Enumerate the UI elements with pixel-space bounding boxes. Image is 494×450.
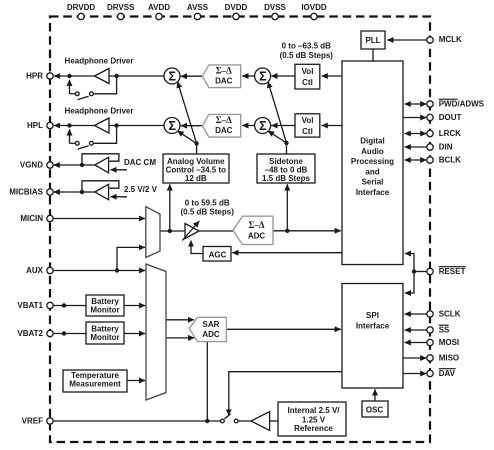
svg-text:MICIN: MICIN xyxy=(20,214,43,223)
svg-text:2.5 V/2 V: 2.5 V/2 V xyxy=(124,185,158,194)
svg-text:HPR: HPR xyxy=(26,72,43,81)
svg-text:VBAT1: VBAT1 xyxy=(17,301,43,310)
svg-text:MCLK: MCLK xyxy=(439,35,462,44)
svg-text:Internal 2.5 V/: Internal 2.5 V/ xyxy=(287,406,340,415)
svg-text:Σ: Σ xyxy=(259,69,267,83)
svg-text:Headphone Driver: Headphone Driver xyxy=(65,107,134,116)
svg-text:Σ: Σ xyxy=(169,119,177,133)
svg-text:AVDD: AVDD xyxy=(148,3,170,12)
svg-text:PWD/ADWS: PWD/ADWS xyxy=(439,100,485,109)
svg-text:Σ–Δ: Σ–Δ xyxy=(248,220,264,230)
svg-text:Interface: Interface xyxy=(356,322,390,331)
svg-text:VBAT2: VBAT2 xyxy=(17,329,43,338)
svg-text:Digital: Digital xyxy=(360,137,384,146)
svg-text:Audio: Audio xyxy=(361,147,384,156)
svg-text:Headphone Driver: Headphone Driver xyxy=(65,57,134,66)
svg-text:ADC: ADC xyxy=(202,330,220,339)
svg-text:SCLK: SCLK xyxy=(439,310,461,319)
svg-text:DVSS: DVSS xyxy=(264,3,286,12)
svg-text:AGC: AGC xyxy=(209,250,227,259)
svg-text:DRVDD: DRVDD xyxy=(67,3,96,12)
svg-text:1.5 dB Steps: 1.5 dB Steps xyxy=(262,174,311,183)
svg-text:Serial: Serial xyxy=(362,178,384,187)
svg-text:Measurement: Measurement xyxy=(69,380,121,389)
svg-text:(0.5 dB Steps): (0.5 dB Steps) xyxy=(280,51,334,60)
svg-text:DAC: DAC xyxy=(215,126,233,135)
svg-text:Ctl: Ctl xyxy=(302,78,313,87)
svg-text:Interface: Interface xyxy=(356,188,390,197)
svg-text:Monitor: Monitor xyxy=(90,333,119,342)
svg-text:OSC: OSC xyxy=(366,405,384,414)
svg-text:SPI: SPI xyxy=(366,311,379,320)
svg-text:VGND: VGND xyxy=(20,161,43,170)
svg-text:DVDD: DVDD xyxy=(225,3,248,12)
svg-text:IOVDD: IOVDD xyxy=(301,3,327,12)
svg-text:SS: SS xyxy=(439,326,450,335)
svg-text:Σ–Δ: Σ–Δ xyxy=(216,115,232,125)
svg-text:Vol: Vol xyxy=(302,67,314,76)
svg-text:AUX: AUX xyxy=(26,266,44,275)
svg-text:Vol: Vol xyxy=(302,116,314,125)
svg-text:DRVSS: DRVSS xyxy=(107,3,135,12)
svg-text:and: and xyxy=(365,167,379,176)
svg-text:DAC: DAC xyxy=(215,77,233,86)
svg-text:AVSS: AVSS xyxy=(187,3,209,12)
svg-text:LRCK: LRCK xyxy=(439,129,461,138)
svg-text:PLL: PLL xyxy=(365,36,380,45)
svg-text:1.25 V: 1.25 V xyxy=(302,415,326,424)
svg-text:Ctl: Ctl xyxy=(302,127,313,136)
svg-text:Processing: Processing xyxy=(351,157,394,166)
svg-text:0 to –63.5 dB: 0 to –63.5 dB xyxy=(282,41,332,50)
svg-text:HPL: HPL xyxy=(27,121,43,130)
svg-text:SAR: SAR xyxy=(203,320,220,329)
svg-text:0 to 59.5 dB: 0 to 59.5 dB xyxy=(185,199,230,208)
svg-text:MICBIAS: MICBIAS xyxy=(9,188,43,197)
svg-text:Monitor: Monitor xyxy=(90,305,119,314)
svg-text:DAV: DAV xyxy=(439,369,456,378)
svg-text:Σ–Δ: Σ–Δ xyxy=(216,66,232,76)
svg-text:VREF: VREF xyxy=(22,417,43,426)
svg-text:MOSI: MOSI xyxy=(439,338,459,347)
svg-text:Σ: Σ xyxy=(169,69,177,83)
svg-text:(0.5 dB Steps): (0.5 dB Steps) xyxy=(181,208,235,217)
svg-text:DIN: DIN xyxy=(439,143,453,152)
svg-text:BCLK: BCLK xyxy=(439,156,461,165)
svg-text:DAC CM: DAC CM xyxy=(124,158,156,167)
svg-text:DOUT: DOUT xyxy=(439,113,462,122)
svg-text:MISO: MISO xyxy=(439,354,459,363)
svg-text:Σ: Σ xyxy=(259,119,267,133)
svg-text:12 dB: 12 dB xyxy=(185,174,207,183)
svg-text:ADC: ADC xyxy=(248,231,266,240)
svg-text:Reference: Reference xyxy=(294,424,333,433)
svg-text:RESET: RESET xyxy=(439,267,466,276)
